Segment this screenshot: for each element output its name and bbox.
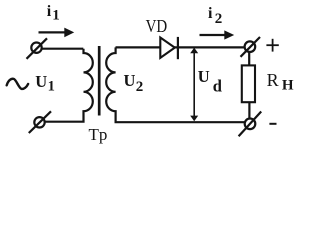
wire top-left to transformer primary	[42, 48, 84, 50]
svg-text:R: R	[267, 70, 279, 90]
svg-text:i: i	[208, 5, 213, 22]
label U1	[35, 72, 55, 95]
label RH	[267, 70, 294, 94]
label i2	[208, 5, 222, 27]
wire resistor to bottom terminal	[248, 102, 250, 118]
label i1	[47, 3, 60, 24]
wire terminal to resistor	[248, 52, 250, 66]
transformer secondary winding	[106, 47, 245, 122]
transformer core	[98, 46, 101, 116]
terminal top-left	[27, 38, 48, 59]
plus sign	[266, 39, 278, 52]
svg-text:U: U	[198, 67, 210, 86]
svg-text:U: U	[35, 72, 47, 91]
svg-text:VD: VD	[146, 16, 168, 36]
svg-text:2: 2	[215, 11, 223, 27]
diode VD	[160, 37, 178, 59]
label U2	[124, 71, 144, 95]
svg-text:H: H	[282, 77, 294, 93]
svg-text:1: 1	[52, 8, 60, 24]
label Ud	[198, 67, 222, 95]
svg-text:U: U	[124, 71, 136, 90]
arrow i2	[200, 30, 235, 39]
svg-text:1: 1	[48, 79, 55, 95]
Ud measuring arrow (double headed)	[190, 48, 198, 122]
transformer primary winding	[45, 49, 93, 122]
AC source tilde	[7, 79, 28, 89]
resistor RH	[242, 65, 255, 102]
wire secondary top to output	[116, 46, 246, 48]
svg-text:i: i	[47, 3, 52, 20]
terminal top-right	[241, 37, 261, 57]
svg-text:Tp: Tp	[89, 125, 108, 144]
terminal bottom-right	[239, 112, 262, 137]
svg-text:d: d	[213, 76, 222, 95]
arrow i1	[39, 28, 75, 38]
terminal bottom-left	[29, 111, 51, 133]
minus sign	[269, 123, 276, 125]
svg-text:2: 2	[136, 79, 144, 95]
